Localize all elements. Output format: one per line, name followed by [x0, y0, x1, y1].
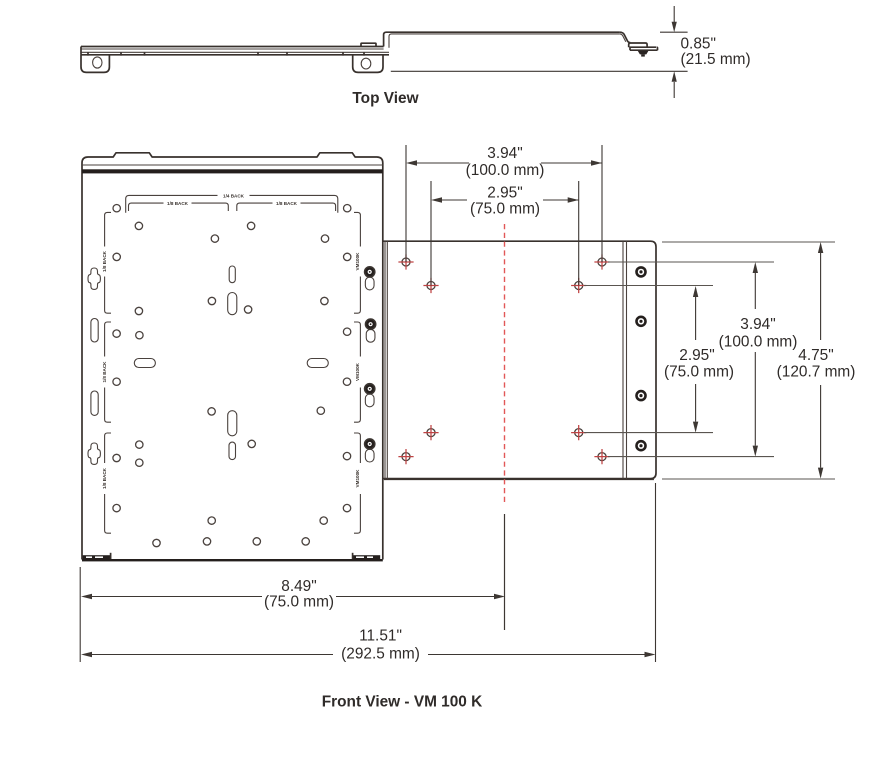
svg-text:0.85": 0.85" — [681, 36, 716, 53]
svg-text:1/8 BACK: 1/8 BACK — [102, 467, 107, 489]
extension line plate bottom right — [662, 478, 835, 480]
top view right clip bracket — [629, 43, 647, 47]
bracket left vertical segment 1 — [105, 212, 111, 313]
vesa screw 1 — [635, 266, 647, 278]
dimension line 3.94in horizontal — [417, 162, 602, 164]
bracket right vertical segment 1 — [354, 212, 360, 313]
leader from outer top hole — [608, 261, 774, 263]
leader from inner bottom hole — [584, 432, 713, 434]
top view step up outer line — [384, 32, 620, 46]
vesa hole bottom-left outer — [398, 449, 413, 464]
horizontal slot left — [134, 359, 155, 368]
leader from inner top hole — [584, 285, 713, 287]
leader from outer bottom hole — [608, 456, 774, 458]
svg-text:(75.0 mm): (75.0 mm) — [264, 594, 334, 611]
svg-text:(100.0 mm): (100.0 mm) — [466, 162, 545, 179]
center slot large lower — [228, 411, 237, 436]
center slot small lower — [229, 442, 236, 460]
bracket right vertical segment 2 — [354, 322, 360, 422]
dimension line 11.51in — [92, 654, 645, 656]
extension line inner left — [430, 181, 432, 286]
svg-text:(120.7 mm): (120.7 mm) — [777, 364, 856, 381]
vesa plate right fold lines — [623, 241, 627, 478]
bracket right vertical segment 3 — [354, 433, 360, 533]
red center line — [504, 224, 506, 503]
vesa screw 4 — [635, 440, 647, 452]
center slot large upper — [228, 293, 237, 315]
vesa hole bottom-right outer — [594, 449, 609, 464]
vesa hole bottom-left inner — [423, 425, 438, 440]
extension line inner right — [578, 181, 580, 286]
dimension 0.85in bottom arrow — [673, 82, 675, 98]
horizontal slot right — [307, 359, 328, 368]
top view right step down inner — [620, 34, 626, 42]
center slot small upper — [229, 266, 235, 283]
svg-text:(21.5 mm): (21.5 mm) — [681, 51, 751, 68]
dimension 0.85in bottom extension line — [391, 70, 688, 72]
svg-text:(100.0 mm): (100.0 mm) — [719, 334, 798, 351]
wall plate top thick band — [82, 169, 383, 173]
svg-text:8.49": 8.49" — [281, 578, 316, 595]
vesa hole bottom-right inner — [571, 425, 586, 440]
svg-text:1/8 BACK: 1/8 BACK — [276, 201, 298, 206]
svg-text:1/8 BACK: 1/8 BACK — [102, 361, 107, 383]
svg-text:11.51": 11.51" — [359, 628, 402, 645]
top view bar left end cap — [80, 47, 82, 55]
dimension line 2.95in vertical — [695, 297, 697, 422]
svg-text:1/8 BACK: 1/8 BACK — [102, 250, 107, 272]
wall plate bottom thick edge — [82, 559, 383, 561]
bracket left vertical segment 2 — [105, 322, 111, 422]
svg-text:1/4 BACK: 1/4 BACK — [223, 193, 245, 198]
vesa plate left fold lines — [385, 241, 387, 478]
vesa screw 2 — [635, 316, 647, 328]
extension line outer right — [601, 145, 603, 262]
top view clip screw head — [638, 51, 649, 55]
top view bar inner line 2 — [81, 48, 384, 50]
slot left upper obround — [91, 319, 98, 343]
dimension line 8.49in — [92, 596, 494, 598]
keyhole slot left lower — [88, 443, 100, 464]
vesa plate bottom reinforce — [384, 479, 654, 481]
plate hole circles — [113, 205, 351, 547]
dimension line 3.94in vertical — [754, 273, 756, 446]
keyhole screws right column — [364, 266, 377, 462]
top view left mounting tab — [81, 55, 109, 73]
bracket 1/8 BACK top left — [129, 203, 229, 211]
svg-text:2.95": 2.95" — [679, 347, 714, 364]
top view bar bottom edge — [81, 54, 389, 56]
top view bar inner line 3 — [81, 51, 389, 53]
wall plate outline — [82, 153, 383, 560]
svg-text:2.95": 2.95" — [487, 184, 522, 201]
bracket 1/4 BACK top — [126, 195, 338, 212]
svg-text:Top View: Top View — [352, 90, 418, 107]
wall plate right foot — [352, 555, 380, 559]
extension line outer left — [405, 145, 407, 262]
svg-text:3.94": 3.94" — [487, 145, 522, 162]
svg-text:VM100K: VM100K — [355, 469, 360, 488]
vesa hole top-left inner — [423, 278, 438, 293]
bracket 1/8 BACK top right — [237, 203, 336, 211]
svg-text:VM100K: VM100K — [355, 362, 360, 381]
top view step up inner line — [389, 34, 620, 48]
svg-text:VM100K: VM100K — [355, 252, 360, 271]
vesa hole top-right outer — [594, 254, 609, 269]
svg-text:(292.5 mm): (292.5 mm) — [341, 646, 420, 663]
top view left tab oval hole — [93, 57, 102, 68]
svg-text:Front View - VM 100 K: Front View - VM 100 K — [322, 694, 483, 711]
top view right step down outer — [620, 32, 631, 42]
top view right clip base plate — [630, 47, 658, 50]
dimension line 4.75in vertical — [820, 253, 822, 468]
top view clip bump on bar — [361, 43, 376, 46]
slot left lower obround — [91, 391, 98, 415]
top view right mounting tab — [353, 55, 383, 73]
vesa hole top-left outer — [398, 254, 413, 269]
dimension line 2.95in horizontal — [442, 199, 579, 201]
wall plate second top line — [82, 164, 383, 166]
bracket left vertical segment 3 — [105, 433, 111, 533]
vesa plate outline — [383, 241, 656, 478]
extension line plate top right — [662, 241, 835, 243]
svg-text:(75.0 mm): (75.0 mm) — [664, 364, 734, 381]
extension line bottom left — [79, 567, 81, 662]
vesa hole top-right inner — [571, 278, 586, 293]
svg-text:4.75": 4.75" — [798, 347, 833, 364]
top view right tab oval hole — [361, 58, 371, 69]
svg-text:3.94": 3.94" — [740, 316, 775, 333]
keyhole slot left upper — [88, 268, 100, 289]
svg-text:1/8 BACK: 1/8 BACK — [167, 201, 189, 206]
vesa screw 3 — [635, 390, 647, 402]
dimension 0.85in top extension line — [660, 31, 688, 33]
wall plate left foot — [83, 555, 111, 559]
top view bar top edge — [81, 46, 384, 48]
top view bar tick marks — [88, 52, 364, 55]
top view clip screw stem — [641, 54, 645, 56]
black center line below plate — [504, 514, 506, 630]
dimension 0.85in top arrow — [673, 6, 675, 22]
svg-text:(75.0 mm): (75.0 mm) — [470, 201, 540, 218]
extension line bottom right — [655, 483, 657, 662]
